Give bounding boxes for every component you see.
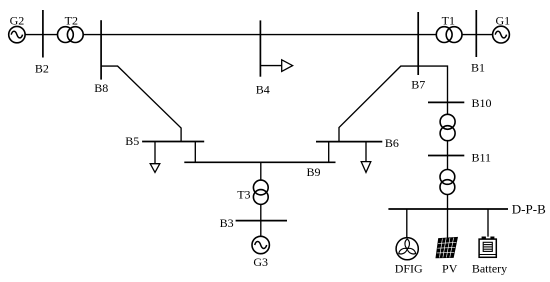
svg-text:G1: G1 <box>495 13 510 27</box>
bus B3 <box>236 220 287 222</box>
wire B10 to transformer <box>447 102 449 114</box>
wind turbine DFIG <box>396 238 418 260</box>
generator G2 <box>9 26 25 42</box>
wire G2 to T2 <box>25 34 57 36</box>
bus B7 <box>417 12 419 75</box>
bus B1 <box>475 10 477 57</box>
svg-text:T1: T1 <box>442 13 455 27</box>
svg-text:T3: T3 <box>237 187 250 201</box>
load arrow at B6 <box>361 142 371 173</box>
svg-text:B10: B10 <box>472 96 492 110</box>
bus B4 <box>259 20 261 76</box>
wire transformer to D-P-B bus <box>447 195 449 210</box>
svg-text:B9: B9 <box>306 165 320 179</box>
bus B11 <box>428 155 464 157</box>
wire T2 to T1 (main top bus wire) <box>83 34 436 36</box>
bus B5 <box>142 141 204 143</box>
battery icon <box>479 237 496 258</box>
transformer T3 <box>253 180 268 204</box>
svg-text:D-P-B: D-P-B <box>512 201 546 216</box>
wire DPB to PV <box>447 209 449 238</box>
svg-text:B4: B4 <box>256 83 270 97</box>
wire B6 to B9 <box>328 142 330 163</box>
svg-text:B5: B5 <box>125 134 139 148</box>
transformer B11-DPB <box>440 170 455 195</box>
wire T1 to G1 <box>462 34 493 36</box>
solar panel PV <box>436 238 457 258</box>
bus B10 <box>428 101 464 103</box>
svg-text:T2: T2 <box>65 13 78 27</box>
svg-text:B7: B7 <box>411 78 425 92</box>
wire B11 to transformer <box>447 156 449 170</box>
generator G1 <box>493 26 510 43</box>
wire B7 to feeder column <box>418 66 447 102</box>
generator G3 <box>252 236 269 253</box>
wire B9 to T3 <box>260 162 262 180</box>
svg-text:DFIG: DFIG <box>395 262 423 276</box>
svg-text:B2: B2 <box>35 61 49 75</box>
svg-text:Battery: Battery <box>472 261 507 275</box>
svg-text:B11: B11 <box>472 150 492 164</box>
svg-text:B1: B1 <box>471 61 485 75</box>
bus B6 <box>316 141 382 143</box>
bus D-P-B <box>388 208 508 210</box>
wire B7 to B6 (stub, diagonal, drop) <box>339 66 418 142</box>
bus B9 <box>184 161 335 163</box>
wire B5 to B9 <box>194 142 196 163</box>
svg-text:PV: PV <box>442 261 458 275</box>
svg-text:G2: G2 <box>10 14 25 28</box>
wire B3 to G3 <box>260 221 262 237</box>
load arrow at B4 <box>260 60 292 72</box>
bus B8 <box>100 20 102 79</box>
transformer B10-B11 <box>440 114 455 140</box>
svg-text:G3: G3 <box>253 255 268 269</box>
transformer T2 <box>58 27 84 43</box>
wire T3 to B3 <box>260 204 262 220</box>
transformer T1 <box>436 27 462 43</box>
svg-text:B6: B6 <box>385 136 399 150</box>
wire DPB to DFIG <box>406 209 408 238</box>
wire B8 to B5 (stub, diagonal, drop) <box>101 66 181 141</box>
wire DPB to Battery <box>487 209 489 237</box>
bus B2 <box>42 10 44 58</box>
load arrow at B5 <box>150 142 160 173</box>
svg-text:B8: B8 <box>94 81 108 95</box>
wire transformer to B11 <box>447 141 449 156</box>
svg-text:B3: B3 <box>220 216 234 230</box>
